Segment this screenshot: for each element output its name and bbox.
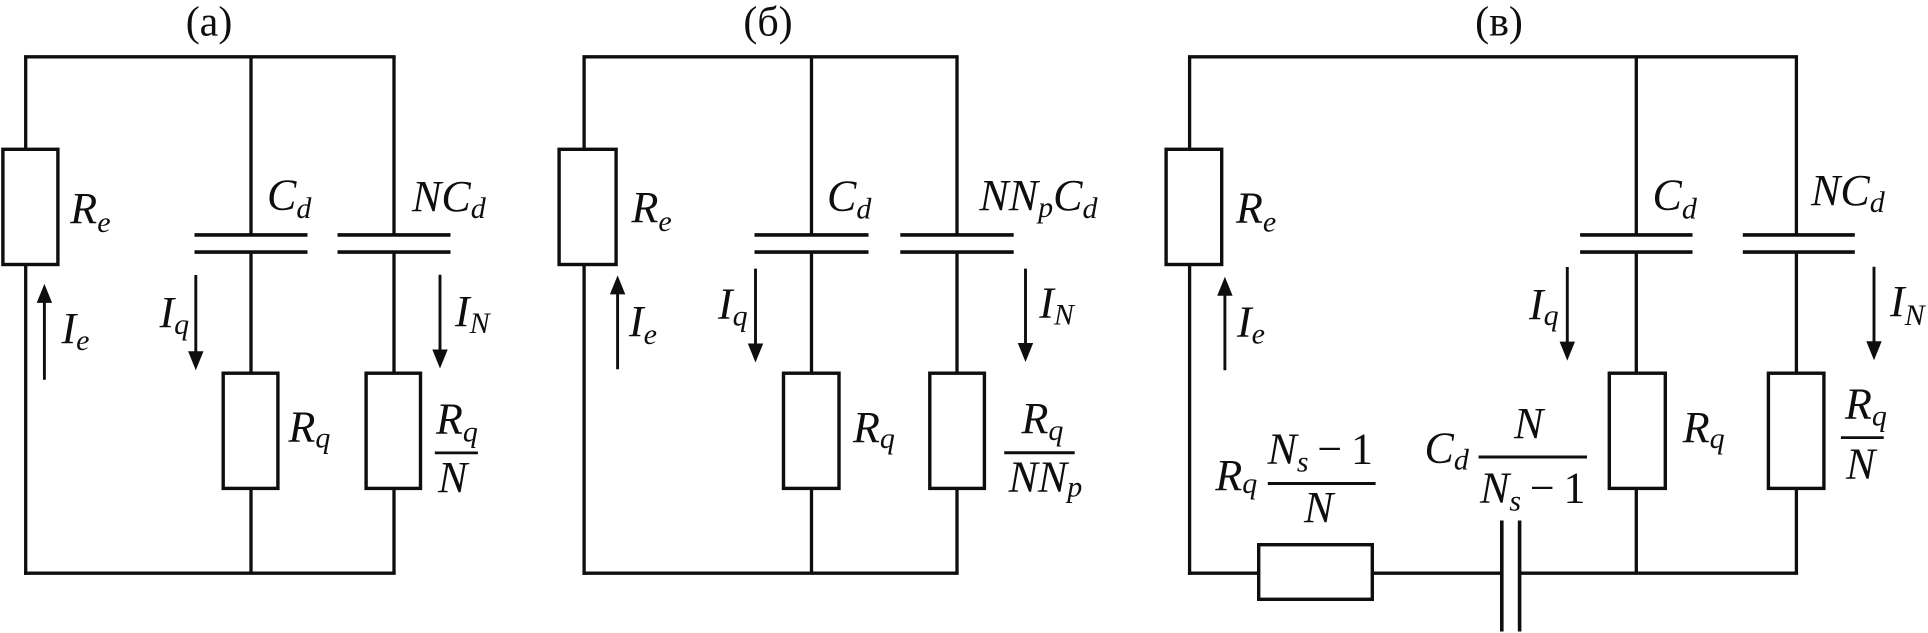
current arrow Ie_b: [616, 292, 619, 369]
wire top_v: [1188, 55, 1798, 58]
wire right_b between: [955, 252, 958, 373]
wire bottom_a: [24, 572, 396, 575]
label RqNs_v fraction bar: [1268, 482, 1376, 485]
wire right_b upper: [955, 57, 958, 235]
resistor RqN_v: [1768, 373, 1824, 488]
wire left_b upper: [582, 57, 585, 151]
current arrow Ie_v: [1223, 294, 1226, 370]
capacitor NCd_a: [338, 233, 451, 237]
wire mid_a upper: [249, 57, 252, 235]
label RqN_v fraction bar: [1841, 436, 1884, 439]
current arrow Ie_a: [43, 301, 46, 380]
capacitor Cd_v: [1580, 233, 1692, 237]
svg-text:N: N: [1513, 399, 1546, 448]
svg-text:Ns − 1: Ns − 1: [1479, 464, 1585, 518]
wire mid_b lower: [810, 488, 813, 573]
wire left_v lower: [1188, 263, 1191, 575]
wire left_v upper: [1188, 57, 1191, 151]
capacitor CdN_v left plate: [1500, 521, 1504, 632]
svg-text:N: N: [1303, 483, 1336, 532]
wire mid_v lower: [1635, 488, 1638, 573]
wire bottom_v segment1: [1188, 572, 1260, 575]
current arrow IN_b: [1024, 269, 1027, 345]
wire right_v upper: [1795, 57, 1798, 235]
wire mid_v between: [1635, 252, 1638, 373]
current arrow IN_a: [439, 275, 442, 352]
svg-text:N: N: [437, 453, 470, 502]
resistor Re_a: [3, 149, 58, 264]
wire right_v between: [1795, 252, 1798, 373]
svg-text:N: N: [1845, 440, 1878, 489]
wire top_a: [24, 55, 396, 58]
resistor Rq_b: [784, 373, 840, 488]
wire right_b lower: [955, 488, 958, 573]
current arrow Iq_v: [1566, 267, 1569, 344]
wire top_b: [582, 55, 958, 58]
resistor RqNNp_b: [930, 373, 985, 488]
capacitor CdN_v right plate: [1518, 521, 1522, 632]
resistor Re_b: [559, 149, 616, 264]
current arrow Iq_b: [754, 269, 757, 346]
svg-text:(в): (в): [1475, 0, 1523, 46]
resistor Re_v: [1166, 149, 1222, 264]
wire right_a between: [392, 252, 395, 373]
svg-text:(а): (а): [186, 0, 233, 46]
capacitor NCd_v: [1743, 233, 1855, 237]
wire left_a lower: [24, 263, 27, 575]
wire mid_b upper: [810, 57, 813, 235]
resistor RqNs_v (series bottom): [1259, 545, 1373, 600]
wire bottom_v segment3: [1520, 572, 1798, 575]
svg-text:Ns − 1: Ns − 1: [1267, 424, 1373, 478]
svg-text:(б): (б): [743, 0, 792, 46]
wire left_a upper: [24, 57, 27, 151]
wire mid_v upper: [1635, 57, 1638, 235]
label RqNNp_b fraction bar: [1004, 451, 1074, 454]
resistor Rq_v: [1609, 373, 1665, 488]
capacitor Cd_a: [195, 233, 308, 237]
current arrow Iq_a: [194, 275, 197, 353]
wire right_a lower: [392, 488, 395, 573]
wire mid_a between: [249, 252, 252, 373]
label RqN_a fraction bar: [435, 451, 478, 454]
wire right_v lower: [1795, 488, 1798, 573]
resistor Rq_a: [223, 373, 278, 488]
wire mid_a lower: [249, 488, 252, 573]
wire right_a upper: [392, 57, 395, 235]
label CdN_v fraction bar: [1479, 456, 1587, 459]
wire bottom_v segment2: [1372, 572, 1502, 575]
wire bottom_b: [582, 572, 958, 575]
current arrow IN_v: [1873, 267, 1876, 344]
wire mid_b between: [810, 252, 813, 373]
wire left_b lower: [582, 263, 585, 575]
capacitor NNpCd_b: [900, 233, 1013, 237]
capacitor Cd_b: [755, 233, 869, 237]
resistor RqN_a: [366, 373, 420, 488]
